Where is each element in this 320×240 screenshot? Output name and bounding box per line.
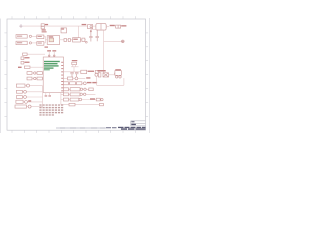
wire <box>27 53 45 55</box>
capacitor C5 <box>96 30 99 42</box>
wire <box>32 42 37 44</box>
wire loop <box>97 77 124 85</box>
pin stub bottom <box>45 93 51 97</box>
MCU U1 <box>43 57 63 93</box>
row R4 <box>63 88 93 91</box>
wire <box>109 73 115 75</box>
connector CN2 <box>16 41 32 45</box>
pin stub <box>47 50 51 57</box>
wire vert <box>60 93 62 105</box>
jumper JP1 <box>23 53 28 56</box>
capacitor C1 <box>64 39 67 42</box>
label F1 <box>61 28 67 33</box>
row R1 wire <box>64 70 99 73</box>
choke L1 <box>96 24 106 31</box>
wire <box>44 25 87 27</box>
row R2 <box>64 77 91 80</box>
wire <box>106 25 109 27</box>
bead FB1 <box>37 35 44 39</box>
row R7 <box>61 103 104 106</box>
resistor R2 <box>21 61 30 64</box>
row R6 <box>61 98 103 101</box>
capacitor C4 <box>89 30 92 42</box>
diode D2 <box>116 25 121 28</box>
capacitor C2 <box>68 39 70 42</box>
connector CN1 <box>16 35 32 39</box>
net label table <box>39 104 63 115</box>
label <box>18 67 22 68</box>
connector CN4 <box>115 69 121 78</box>
switch SW4 <box>16 100 43 103</box>
bead FB2 <box>37 42 48 48</box>
sheet border frame <box>0 16 149 133</box>
power flag + <box>19 24 23 28</box>
title text row <box>56 127 146 130</box>
transistor Q1 <box>95 73 109 77</box>
switch SW3 <box>16 96 42 99</box>
diode D1 <box>88 25 93 29</box>
pin stub <box>52 50 56 57</box>
label Q1 <box>97 70 105 72</box>
row LED1 <box>27 72 43 75</box>
row R5 <box>61 93 96 96</box>
junction <box>106 25 108 27</box>
power symbol <box>122 40 125 43</box>
title block table <box>131 121 146 126</box>
row R3 <box>63 82 97 85</box>
connector CN3 <box>15 105 43 108</box>
wire branch <box>104 40 122 42</box>
connector J1 <box>41 24 48 33</box>
wire <box>23 25 41 27</box>
switch SW2 <box>16 90 42 93</box>
wire drop <box>78 26 80 38</box>
capacitor C3 <box>73 38 81 42</box>
wire <box>60 39 86 41</box>
label D2 <box>110 25 115 26</box>
regulator U2 <box>47 36 60 45</box>
wire <box>32 35 37 37</box>
label <box>121 25 126 26</box>
switch S1 <box>24 66 43 68</box>
label <box>82 24 87 25</box>
row LED2 <box>27 77 43 80</box>
wire bus left <box>42 86 44 107</box>
rail VDD vertical <box>103 30 105 72</box>
crystal X1 <box>70 60 78 77</box>
wire merge <box>44 37 47 43</box>
switch SW1 <box>16 84 42 87</box>
wire rail top <box>91 29 104 31</box>
resistor R1 <box>21 57 30 60</box>
wire <box>93 25 96 27</box>
capacitor C6 <box>82 38 87 43</box>
